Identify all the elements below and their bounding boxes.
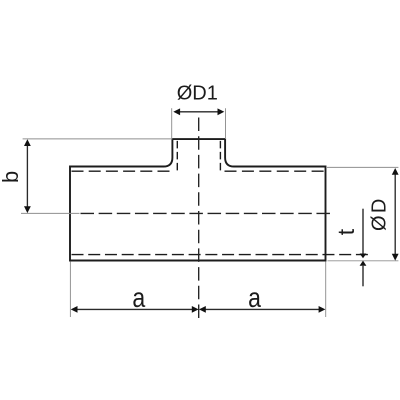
- extension line OD1 right: [225, 108, 227, 139]
- horizontal centerline: [81, 212, 331, 214]
- tee body outline: [70, 139, 326, 260]
- hidden bore line upper right: [225, 170, 324, 172]
- branch bore line right: [219, 141, 221, 171]
- dimension OD1: [173, 108, 224, 115]
- dimension t: [360, 209, 367, 287]
- hidden bore line bottom: [72, 254, 368, 256]
- extension line OD bottom: [328, 260, 399, 262]
- svg-text:ØD1: ØD1: [177, 83, 218, 105]
- svg-text:ØD: ØD: [369, 196, 391, 231]
- extension line a left: [69, 261, 71, 317]
- dimension a right: [199, 306, 325, 313]
- extension line OD1 left: [171, 108, 173, 139]
- svg-text:a: a: [248, 283, 262, 313]
- svg-text:b: b: [0, 171, 23, 183]
- dimension b: [24, 139, 31, 213]
- extension line b top: [23, 138, 173, 140]
- svg-text:a: a: [132, 283, 146, 313]
- hidden bore line upper left: [72, 170, 170, 172]
- vertical centerline: [198, 118, 200, 319]
- extension line b bottom: [21, 212, 80, 214]
- dimension a left: [71, 306, 199, 313]
- dimension OD: [392, 168, 399, 261]
- branch bore line left: [176, 141, 178, 171]
- extension line a right: [325, 261, 327, 317]
- extension line OD top: [327, 166, 398, 168]
- svg-text:t: t: [333, 228, 359, 235]
